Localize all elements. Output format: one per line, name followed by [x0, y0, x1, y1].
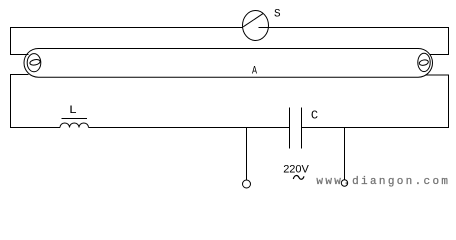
- svg-text:S: S: [274, 9, 281, 21]
- svg-text:C: C: [311, 108, 318, 122]
- lamp left filament ellipse: [29, 59, 40, 66]
- wire terminal 2 drop: [344, 128, 346, 180]
- wire bottom rail seg2: [89, 127, 290, 129]
- wire bottom rail seg1: [11, 127, 61, 129]
- capacitor C left plate: [289, 108, 291, 149]
- svg-text:A: A: [252, 66, 257, 78]
- lamp right filament ellipse: [419, 59, 429, 66]
- starter S lever: [243, 14, 263, 27]
- starter S circle: [243, 11, 269, 41]
- inductor L coil: [60, 123, 89, 128]
- svg-text:L: L: [69, 105, 77, 117]
- wire right vertical top: [448, 27, 450, 55]
- capacitor C right plate: [301, 108, 303, 149]
- wire bottom rail seg3: [302, 127, 449, 129]
- terminal 2 circle: [341, 180, 347, 186]
- lamp right electrode circle: [418, 53, 430, 71]
- wire right vertical bottom: [448, 75, 450, 128]
- wire terminal 1 drop: [246, 128, 248, 181]
- svg-text:220V: 220V: [283, 163, 309, 175]
- wire left vertical top: [10, 27, 12, 55]
- wire right bottom stub: [425, 74, 449, 76]
- inductor L core bar: [62, 118, 88, 120]
- label AC tilde: [293, 176, 304, 180]
- wire left vertical bottom: [10, 75, 12, 129]
- wire top rail left: [11, 27, 244, 29]
- wire top rail right: [259, 27, 449, 29]
- wire right top stub: [430, 54, 450, 56]
- lamp left electrode circle: [27, 54, 41, 72]
- terminal 1 circle: [243, 180, 251, 188]
- wire left bottom stub: [10, 74, 29, 76]
- lamp tube A body: [24, 49, 433, 78]
- wire left top stub: [10, 54, 29, 56]
- svg-text:www.diangon.com: www.diangon.com: [316, 176, 448, 188]
